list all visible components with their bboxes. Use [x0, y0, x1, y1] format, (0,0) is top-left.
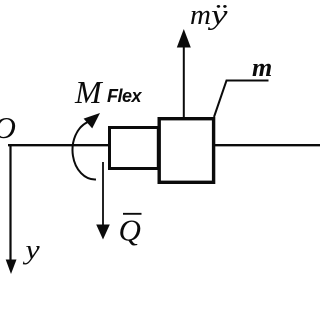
svg-text:m: m	[252, 53, 272, 82]
svg-text:O: O	[0, 110, 16, 145]
svg-text:ÿ: ÿ	[208, 0, 228, 31]
svg-text:M: M	[74, 74, 104, 110]
svg-text:Flex: Flex	[107, 86, 143, 106]
svg-text:y: y	[22, 236, 40, 265]
svg-text:Q: Q	[119, 213, 141, 248]
svg-text:m: m	[190, 0, 211, 31]
